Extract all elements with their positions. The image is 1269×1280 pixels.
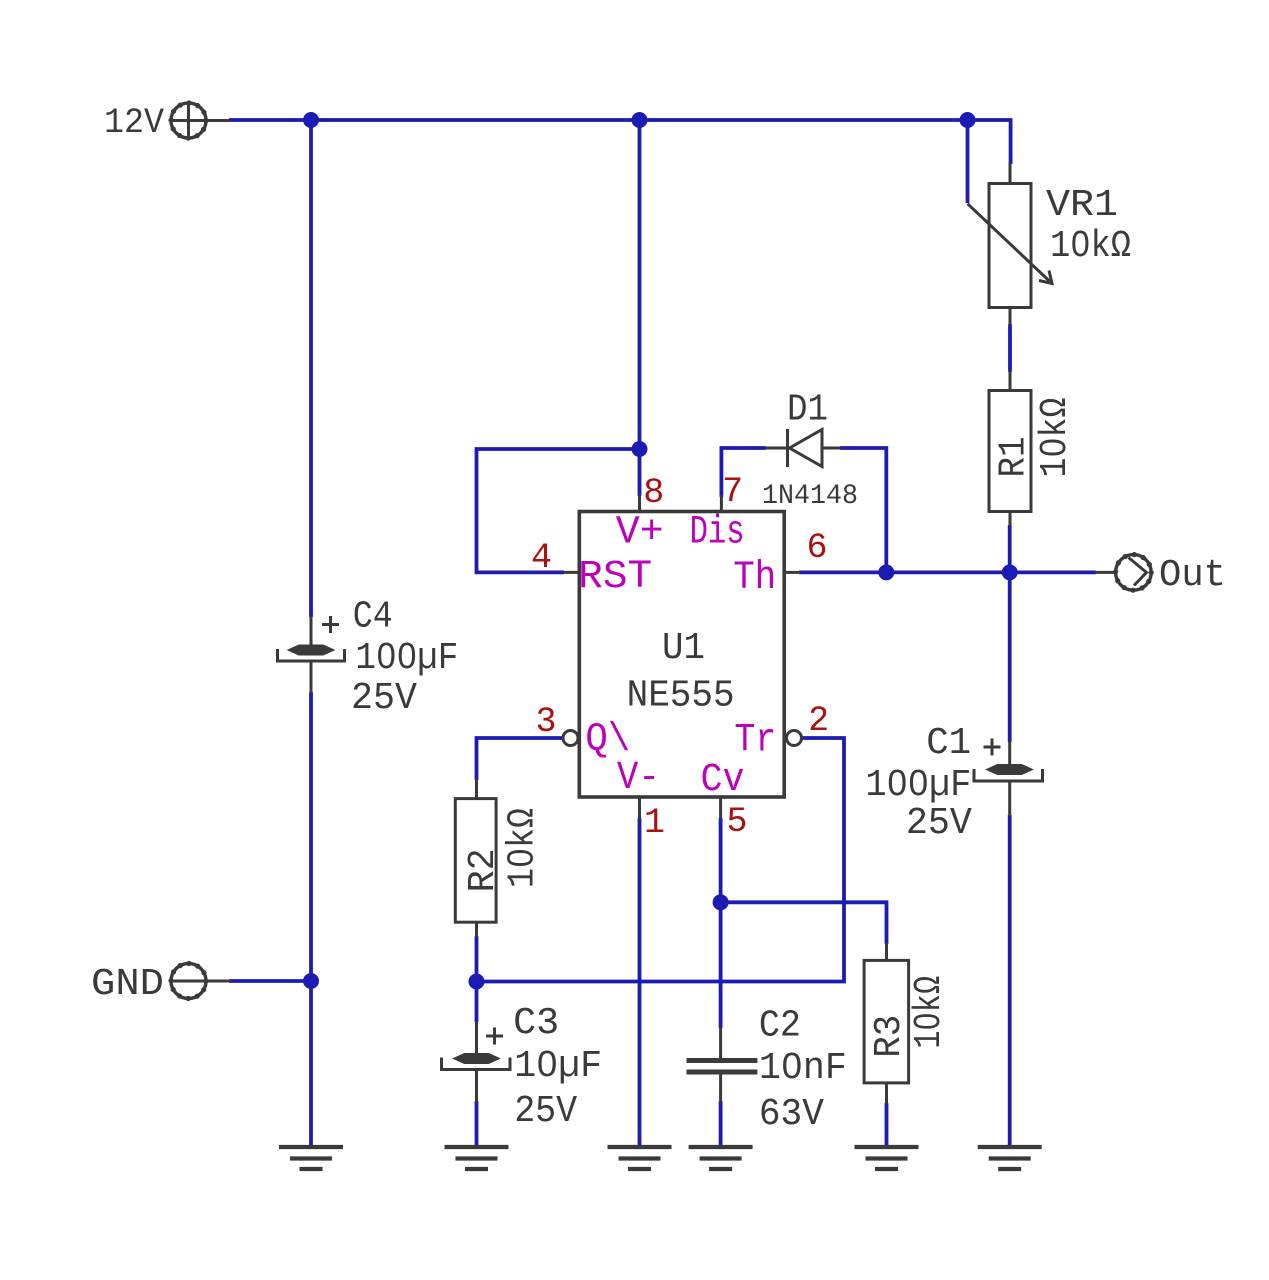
svg-text:Tr: Tr <box>734 719 776 764</box>
svg-text:D1: D1 <box>787 389 828 432</box>
node junction rail/wiper <box>960 112 976 128</box>
svg-text:100µF: 100µF <box>355 637 458 680</box>
wire C4 bottom lead <box>310 661 313 693</box>
wire pin8 vertical from rail <box>638 120 642 496</box>
node junction rail/pin8 <box>632 112 648 128</box>
svg-text:Out: Out <box>1159 554 1226 597</box>
connector GND <box>171 964 206 999</box>
ground C1 net <box>978 1147 1042 1169</box>
wire R1 bottom to Th net <box>1008 525 1012 572</box>
ground C4 net <box>279 1147 343 1169</box>
wire pin7 stub <box>720 495 723 513</box>
zero-dot cover R1 value <box>1048 444 1055 451</box>
node junction Cv/C2/R3 <box>713 894 729 910</box>
svg-text:VR1: VR1 <box>1046 184 1118 227</box>
wire C3 bottom lead <box>475 1069 478 1102</box>
svg-text:3: 3 <box>535 702 556 742</box>
wire R2 top lead <box>475 779 478 799</box>
ground R3 net <box>855 1147 919 1169</box>
pin bubble pin2 <box>787 731 802 746</box>
op-amp U1 NE555 body <box>579 512 784 798</box>
svg-text:10kΩ: 10kΩ <box>1050 225 1131 268</box>
svg-text:C1: C1 <box>926 722 971 765</box>
wire pin1 stub <box>638 796 641 819</box>
wire pin3 to R2 <box>477 738 564 780</box>
capacitor C2 <box>687 1061 758 1073</box>
svg-text:Th: Th <box>733 556 776 601</box>
node junction R2/C3/Tr <box>469 974 485 990</box>
zero-dot cover VR1 value <box>1077 239 1084 246</box>
wire GND connector to C4 net <box>229 979 311 983</box>
wire pin1 V- to ground <box>638 818 642 1146</box>
zero-dot cover R3 value <box>922 1018 929 1025</box>
node junction GND/C4 <box>303 973 319 989</box>
potentiometer VR1 <box>968 184 1053 308</box>
wire D1 cathode lead <box>822 447 841 450</box>
resistor R3 <box>864 960 909 1083</box>
wire 12V top rail <box>229 120 1011 164</box>
wire Th pin6 stub <box>784 571 800 574</box>
svg-text:2: 2 <box>808 701 829 741</box>
svg-text:Dis: Dis <box>690 511 745 556</box>
wire pin8 stub <box>638 495 641 513</box>
svg-text:10kΩ: 10kΩ <box>1034 398 1077 478</box>
wire C3 top lead <box>475 1021 478 1055</box>
svg-text:C3: C3 <box>513 1002 559 1045</box>
wire Tr pin2 down to R2/C3 node <box>477 738 845 982</box>
svg-text:C2: C2 <box>759 1005 801 1048</box>
svg-text:10kΩ: 10kΩ <box>908 976 951 1049</box>
wire Th to Out <box>799 571 1096 575</box>
wire pin7 to D1 anode <box>721 448 766 497</box>
svg-text:RST: RST <box>578 555 652 600</box>
svg-text:6: 6 <box>806 528 827 568</box>
wire R3 top lead <box>885 943 888 961</box>
svg-text:V-: V- <box>617 756 660 801</box>
wire VR1 to R1 link <box>1008 324 1012 372</box>
svg-text:7: 7 <box>722 472 743 512</box>
wire R3 bottom lead <box>885 1082 888 1104</box>
wire C1 bottom lead <box>1008 782 1011 816</box>
wire RST loop <box>477 449 640 572</box>
wire pin5 Cv down to C2 <box>719 818 723 1028</box>
resistor R2 <box>455 799 496 923</box>
svg-text:12V: 12V <box>104 103 164 143</box>
svg-text:C4: C4 <box>353 596 393 639</box>
wire C2 bottom to ground <box>719 1101 723 1146</box>
capacitor C3 <box>442 1028 511 1070</box>
capacitor C4 <box>278 616 345 661</box>
zero-dot cover C1 value <box>894 778 901 785</box>
zero-dot cover C4 value <box>383 651 390 658</box>
connector Out <box>1116 555 1152 591</box>
wire R2 bottom to C3 node <box>475 936 479 1022</box>
ground pin1 net <box>608 1147 672 1169</box>
wire C2 top lead <box>719 1027 722 1059</box>
svg-text:R1: R1 <box>993 437 1036 478</box>
wire R1 top lead <box>1009 371 1012 391</box>
wire Out connector stub <box>1095 571 1116 574</box>
wire R1 bottom lead <box>1009 511 1012 526</box>
node junction Th/R1/C1 <box>1002 564 1018 580</box>
wire C1 top lead <box>1008 741 1011 766</box>
node junction rail/C4 <box>303 112 319 128</box>
svg-text:GND: GND <box>91 963 164 1006</box>
wire C3 bottom to ground <box>475 1101 479 1146</box>
wire Cv node to R3 top <box>721 902 887 944</box>
wire C4 top vertical <box>309 120 313 617</box>
wire D1 cathode down to Th net <box>840 448 886 572</box>
pin bubble pin3 <box>563 731 578 746</box>
wire pin5 stub <box>719 796 722 819</box>
wire GND connector stub <box>206 980 230 983</box>
svg-text:NE555: NE555 <box>627 675 735 718</box>
zero-dot cover C3 value <box>544 1059 551 1066</box>
svg-text:10nF: 10nF <box>759 1047 847 1090</box>
wire R2 bottom lead <box>475 921 478 937</box>
ground C2 net <box>689 1147 753 1169</box>
wire Th net down to C1 <box>1008 572 1012 742</box>
svg-text:25V: 25V <box>514 1090 577 1133</box>
wire VR1 wiper drop <box>966 120 970 203</box>
svg-text:25V: 25V <box>906 802 972 845</box>
wire VR1 top lead <box>1009 163 1012 184</box>
svg-text:1: 1 <box>644 803 665 843</box>
wire 12V connector stub <box>206 119 230 122</box>
wire C2 bottom lead <box>719 1074 722 1102</box>
wire VR1 bottom lead <box>1009 307 1012 325</box>
svg-text:25V: 25V <box>351 677 417 720</box>
wire C1 bottom to ground <box>1008 815 1012 1146</box>
wire C4 top lead <box>310 616 313 647</box>
svg-text:8: 8 <box>643 473 664 513</box>
svg-text:5: 5 <box>726 802 747 842</box>
ground C3 net <box>445 1147 509 1169</box>
wire RST pin4 stub <box>564 571 581 574</box>
svg-text:V+: V+ <box>616 511 664 556</box>
zero-dot cover R2 value <box>515 854 522 861</box>
svg-text:63V: 63V <box>759 1093 824 1136</box>
svg-text:10µF: 10µF <box>514 1045 602 1088</box>
wire R3 bottom to ground <box>885 1103 889 1146</box>
svg-text:R2: R2 <box>462 848 505 892</box>
connector 12V <box>171 103 206 138</box>
svg-text:4: 4 <box>531 538 552 578</box>
capacitor C1 <box>974 739 1043 782</box>
node junction pin8/RST <box>632 441 648 457</box>
zero-dot cover C2 value <box>788 1061 795 1068</box>
svg-text:10kΩ: 10kΩ <box>502 808 545 888</box>
svg-text:1N4148: 1N4148 <box>762 481 858 512</box>
wire C4 bottom to ground <box>309 692 313 1146</box>
node junction Th/D1 <box>878 564 894 580</box>
resistor R1 <box>989 391 1031 512</box>
svg-text:Cv: Cv <box>701 758 745 803</box>
svg-text:U1: U1 <box>662 627 705 670</box>
wire D1 anode lead <box>765 447 787 450</box>
diode D1 <box>788 429 823 467</box>
svg-text:100µF: 100µF <box>865 764 971 807</box>
svg-text:R3: R3 <box>868 1015 911 1058</box>
